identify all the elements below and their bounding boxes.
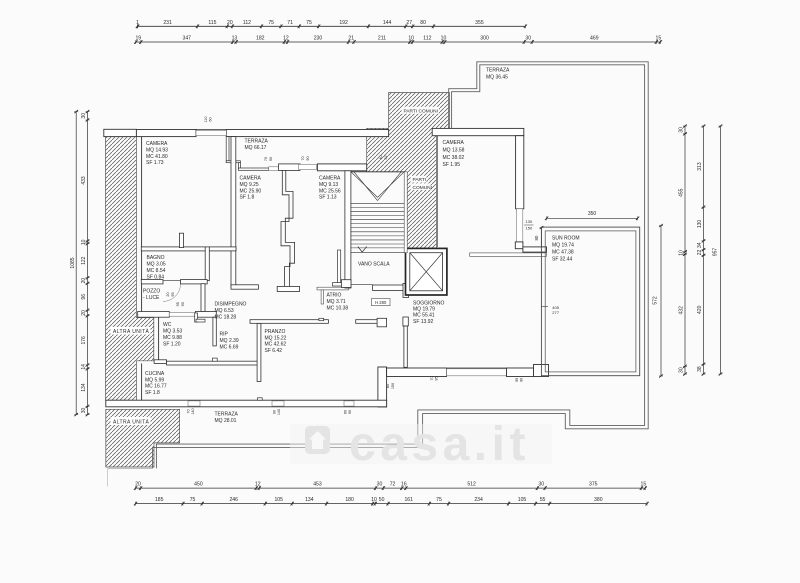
svg-text:130: 130 (526, 219, 533, 224)
svg-text:ALTRA UNITÀ: ALTRA UNITÀ (113, 328, 150, 335)
svg-text:90: 90 (306, 156, 310, 160)
svg-text:12: 12 (283, 36, 289, 42)
svg-text:95: 95 (435, 376, 439, 380)
svg-text:MQ 15.22: MQ 15.22 (265, 335, 287, 341)
svg-text:95: 95 (171, 292, 175, 296)
svg-text:313: 313 (697, 162, 703, 171)
svg-text:MQ 9.25: MQ 9.25 (240, 182, 259, 188)
svg-text:MQ 3.05: MQ 3.05 (147, 262, 166, 268)
svg-text:MC 42.62: MC 42.62 (265, 342, 287, 348)
svg-text:176: 176 (81, 336, 87, 345)
svg-text:RIP: RIP (220, 332, 229, 338)
svg-text:MC 38.02: MC 38.02 (443, 155, 465, 161)
svg-text:20: 20 (81, 278, 87, 284)
svg-text:SUN ROOM: SUN ROOM (552, 236, 580, 242)
svg-text:60: 60 (209, 117, 213, 121)
svg-text:TERRAZA: TERRAZA (245, 139, 269, 145)
svg-text:ATRIO: ATRIO (327, 293, 342, 299)
svg-text:72: 72 (390, 482, 396, 488)
svg-text:21: 21 (348, 36, 354, 42)
svg-text:POZZO: POZZO (143, 289, 160, 295)
svg-text:55: 55 (540, 497, 546, 503)
svg-text:231: 231 (163, 20, 172, 26)
svg-text:14: 14 (81, 364, 87, 370)
svg-text:95: 95 (176, 302, 180, 306)
svg-text:BAGNO: BAGNO (147, 255, 165, 261)
svg-text:1: 1 (136, 20, 139, 26)
svg-text:MQ 14.93: MQ 14.93 (146, 148, 168, 154)
svg-text:CAMERA: CAMERA (319, 176, 341, 182)
svg-text:350: 350 (588, 211, 597, 217)
svg-text:20: 20 (166, 292, 170, 296)
svg-text:10: 10 (679, 250, 685, 256)
svg-text:MQ 3.53: MQ 3.53 (163, 329, 182, 335)
svg-text:115: 115 (208, 20, 216, 26)
svg-text:420: 420 (697, 305, 703, 314)
svg-text:COMUNI: COMUNI (413, 185, 432, 191)
svg-text:WC: WC (163, 322, 172, 328)
svg-text:MC 9.88: MC 9.88 (163, 335, 182, 341)
svg-text:MQ 2.39: MQ 2.39 (220, 338, 239, 344)
svg-text:12: 12 (255, 482, 261, 488)
svg-text:H 280: H 280 (375, 300, 387, 305)
svg-text:- LUCE: - LUCE (143, 295, 160, 301)
svg-text:75: 75 (306, 20, 312, 26)
svg-text:30: 30 (538, 482, 544, 488)
svg-text:234: 234 (474, 497, 483, 503)
svg-text:MQ 9.13: MQ 9.13 (319, 182, 338, 188)
svg-text:30: 30 (81, 407, 87, 413)
svg-text:MC 16.77: MC 16.77 (145, 384, 167, 390)
svg-text:375: 375 (589, 482, 598, 488)
svg-text:70: 70 (264, 157, 268, 161)
svg-text:20: 20 (227, 20, 233, 26)
svg-text:20: 20 (81, 310, 87, 316)
svg-text:192: 192 (339, 20, 348, 26)
svg-text:MC 25.56: MC 25.56 (319, 188, 341, 194)
svg-text:246: 246 (229, 497, 238, 503)
svg-text:30: 30 (679, 127, 685, 133)
svg-text:MQ 36.45: MQ 36.45 (486, 75, 508, 81)
svg-text:75: 75 (268, 20, 274, 26)
svg-text:75: 75 (190, 497, 196, 503)
svg-text:140: 140 (277, 409, 281, 415)
svg-text:30: 30 (81, 113, 87, 119)
svg-text:34: 34 (697, 242, 703, 248)
svg-text:1085: 1085 (70, 257, 76, 268)
svg-text:140: 140 (191, 408, 195, 414)
svg-text:DISIMPEGNO: DISIMPEGNO (215, 302, 247, 308)
svg-text:50: 50 (379, 497, 385, 503)
svg-text:15: 15 (656, 36, 662, 42)
svg-text:38: 38 (697, 366, 703, 372)
svg-text:SF 0.84: SF 0.84 (147, 274, 165, 280)
svg-text:433: 433 (81, 176, 87, 185)
svg-text:185: 185 (155, 497, 164, 503)
svg-text:161: 161 (404, 497, 413, 503)
svg-text:105: 105 (274, 497, 283, 503)
svg-text:180: 180 (345, 497, 354, 503)
svg-text:MC 18.28: MC 18.28 (215, 314, 237, 320)
svg-text:22: 22 (697, 249, 703, 255)
svg-text:SF 1.20: SF 1.20 (163, 341, 181, 347)
svg-text:70: 70 (301, 156, 305, 160)
svg-text:MC 10.38: MC 10.38 (327, 306, 349, 312)
svg-text:96: 96 (81, 294, 87, 300)
svg-text:150: 150 (526, 226, 533, 231)
svg-text:CUCINA: CUCINA (145, 371, 165, 377)
svg-text:211: 211 (378, 36, 386, 42)
svg-text:112: 112 (243, 20, 251, 26)
svg-text:90: 90 (273, 410, 277, 414)
svg-text:10: 10 (81, 239, 87, 245)
svg-text:19: 19 (135, 36, 141, 42)
svg-text:512: 512 (467, 482, 476, 488)
svg-text:MC 55.41: MC 55.41 (413, 313, 435, 319)
svg-text:71: 71 (287, 20, 293, 26)
svg-text:30: 30 (679, 367, 685, 373)
svg-text:MQ 6.53: MQ 6.53 (215, 308, 234, 314)
svg-text:SF 1.13: SF 1.13 (319, 195, 337, 201)
svg-text:110: 110 (204, 116, 208, 122)
svg-text:95: 95 (515, 378, 519, 382)
svg-text:16: 16 (401, 482, 407, 488)
svg-text:469: 469 (590, 36, 599, 42)
svg-text:MQ 5.99: MQ 5.99 (145, 377, 164, 383)
svg-text:70: 70 (187, 409, 191, 413)
svg-text:ALTRA UNITÀ: ALTRA UNITÀ (113, 419, 150, 426)
svg-text:112: 112 (423, 36, 431, 42)
svg-text:300: 300 (480, 36, 489, 42)
svg-text:182: 182 (256, 36, 265, 42)
svg-text:90: 90 (269, 157, 273, 161)
svg-text:10: 10 (408, 36, 414, 42)
svg-text:SF 32.44: SF 32.44 (552, 256, 573, 262)
svg-text:MC 8.54: MC 8.54 (147, 268, 166, 274)
svg-text:134: 134 (81, 383, 87, 392)
svg-text:347: 347 (183, 36, 192, 42)
svg-text:90: 90 (348, 410, 352, 414)
svg-text:TERRAZA: TERRAZA (215, 412, 239, 418)
svg-text:70: 70 (430, 376, 434, 380)
svg-text:SF 13.92: SF 13.92 (413, 319, 434, 325)
svg-text:MC 41.80: MC 41.80 (146, 154, 168, 160)
svg-text:MQ 66.17: MQ 66.17 (245, 145, 267, 151)
svg-text:10: 10 (371, 497, 377, 503)
svg-text:MQ 19.74: MQ 19.74 (552, 243, 574, 249)
svg-text:134: 134 (305, 497, 314, 503)
svg-text:MQ 3.71: MQ 3.71 (327, 299, 346, 305)
svg-text:SF 1.95: SF 1.95 (443, 162, 461, 168)
svg-text:SF 1.8: SF 1.8 (240, 195, 255, 201)
svg-text:230: 230 (314, 36, 323, 42)
svg-text:105: 105 (518, 497, 527, 503)
svg-text:122: 122 (81, 256, 87, 265)
svg-text:CAMERA: CAMERA (443, 140, 465, 146)
svg-text:277: 277 (552, 310, 559, 315)
svg-text:casa.it: casa.it (349, 418, 530, 471)
svg-text:90: 90 (181, 302, 185, 306)
svg-text:80: 80 (420, 20, 426, 26)
svg-text:30: 30 (377, 482, 383, 488)
svg-text:572: 572 (653, 296, 659, 305)
svg-text:380: 380 (594, 497, 603, 503)
svg-text:SF 6.42: SF 6.42 (265, 348, 283, 354)
svg-text:80: 80 (534, 235, 539, 240)
svg-text:30: 30 (525, 36, 531, 42)
svg-text:432: 432 (679, 306, 685, 315)
svg-text:SF 1.8: SF 1.8 (145, 390, 160, 396)
svg-text:355: 355 (475, 20, 484, 26)
svg-text:75: 75 (436, 497, 442, 503)
svg-text:60: 60 (344, 410, 348, 414)
svg-text:130: 130 (697, 220, 703, 229)
svg-text:450: 450 (194, 482, 203, 488)
svg-text:150: 150 (391, 383, 395, 389)
svg-text:CAMERA: CAMERA (240, 176, 262, 182)
svg-text:455: 455 (679, 188, 685, 197)
svg-text:TERRAZA: TERRAZA (486, 68, 510, 74)
svg-text:PARTI COMUNI: PARTI COMUNI (404, 108, 438, 114)
svg-text:CAMERA: CAMERA (146, 141, 168, 147)
svg-text:SF 1.73: SF 1.73 (146, 160, 164, 166)
svg-text:27: 27 (406, 20, 412, 26)
svg-text:MQ 13.58: MQ 13.58 (443, 148, 465, 154)
svg-text:MC 6.69: MC 6.69 (220, 345, 239, 351)
svg-text:PARTI: PARTI (413, 177, 427, 183)
svg-text:957: 957 (713, 248, 719, 257)
svg-text:10: 10 (441, 36, 447, 42)
svg-text:13: 13 (232, 36, 238, 42)
svg-text:VANO SCALA: VANO SCALA (358, 261, 390, 267)
svg-text:PRANZO: PRANZO (265, 329, 286, 335)
svg-text:MQ 28.01: MQ 28.01 (215, 418, 237, 424)
svg-text:144: 144 (383, 20, 392, 26)
svg-text:453: 453 (313, 482, 322, 488)
svg-text:MC 47.38: MC 47.38 (552, 249, 574, 255)
svg-text:20: 20 (135, 482, 141, 488)
svg-text:90: 90 (520, 378, 524, 382)
svg-text:15: 15 (640, 482, 646, 488)
